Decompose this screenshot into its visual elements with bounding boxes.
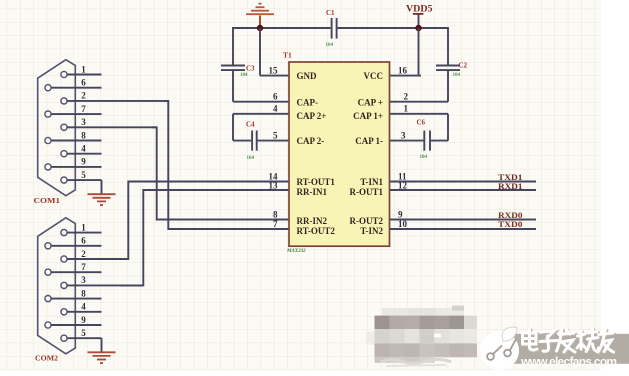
IC pin name CAP +	[358, 97, 383, 107]
svg-text:CAP 2+: CAP 2+	[297, 111, 327, 121]
svg-text:TXD1: TXD1	[498, 173, 523, 182]
svg-text:COM1: COM1	[34, 197, 61, 205]
wire pin3 left segment (IC pin 3)	[390, 140, 424, 142]
net label TXD0	[498, 220, 523, 229]
pin number 3 (COM1)	[81, 117, 86, 127]
wire IC pin 2	[390, 101, 449, 103]
svg-text:RR-IN1: RR-IN1	[297, 187, 328, 197]
svg-text:5: 5	[81, 170, 86, 180]
wire COM1 pin 6	[51, 87, 101, 89]
svg-text:104: 104	[453, 73, 461, 78]
wire COM1 pin 9	[51, 166, 101, 168]
IC pin name T-IN2	[360, 226, 383, 236]
svg-text:RR-IN2: RR-IN2	[297, 216, 328, 226]
wire COM2 pin5 to ground	[101, 338, 103, 352]
wire COM2 pin 2	[67, 258, 128, 260]
IC pin name RT-OUT1	[297, 177, 336, 187]
label MAX232	[286, 249, 306, 254]
wire rail corner down to C3	[232, 27, 234, 65]
svg-text:GND: GND	[297, 71, 318, 81]
svg-text:104: 104	[240, 73, 248, 78]
svg-text:RT-OUT1: RT-OUT1	[297, 177, 336, 187]
capacitor C1	[332, 18, 337, 39]
wire IC pin 13 to COM2 pin 3	[120, 190, 289, 285]
IC pin name CAP 1+	[353, 111, 383, 121]
capacitor C4	[252, 131, 257, 151]
wire pin3 right segment	[431, 140, 448, 142]
svg-text:6: 6	[81, 236, 86, 246]
wire IC pin 15	[260, 75, 289, 77]
svg-text:3: 3	[401, 130, 406, 140]
wire top rail left of C1	[233, 27, 331, 29]
label C3	[246, 65, 255, 73]
wire IC pin 16	[390, 75, 422, 77]
svg-text:TXD0: TXD0	[498, 220, 523, 229]
pin number 3 (COM2)	[81, 275, 86, 285]
svg-text:2: 2	[404, 92, 409, 102]
power symbol VDD5	[406, 4, 433, 29]
wire IC pin 7 to COM1 pin 2	[164, 101, 289, 229]
svg-text:CAP 1-: CAP 1-	[355, 136, 383, 146]
ground (COM2)	[88, 352, 116, 363]
wire COM1 pin 8	[51, 140, 101, 142]
svg-text:12: 12	[398, 180, 408, 190]
svg-text:CAP-: CAP-	[297, 97, 319, 107]
svg-text:3: 3	[81, 275, 86, 285]
capacitor C2	[436, 66, 460, 71]
value 104 (C6)	[420, 155, 428, 160]
net label RXD0	[498, 211, 523, 220]
svg-text:R-OUT2: R-OUT2	[350, 216, 384, 226]
wire COM2 pin 6	[51, 245, 101, 247]
op-amp/IC U1 MAX232 body	[289, 62, 390, 246]
svg-text:104: 104	[326, 43, 334, 48]
svg-text:5: 5	[81, 328, 86, 338]
capacitor C3	[221, 66, 245, 71]
svg-text:www.elecfans.com: www.elecfans.com	[520, 355, 617, 369]
svg-text:5: 5	[273, 130, 278, 140]
wire COM1 pin 7	[51, 113, 101, 115]
svg-text:4: 4	[81, 302, 86, 312]
connector COM1 (DB9 female)	[38, 60, 76, 196]
svg-text:15: 15	[269, 65, 279, 75]
svg-text:COM2: COM2	[35, 354, 59, 362]
pin number 7 (IC left)	[273, 219, 278, 229]
svg-text:9: 9	[81, 157, 86, 167]
label C2	[459, 62, 468, 70]
pin number 5 (COM2)	[81, 328, 86, 338]
svg-text:C3: C3	[246, 65, 255, 73]
svg-text:MAX232: MAX232	[286, 249, 306, 254]
wire COM1 pin 1	[67, 74, 101, 76]
IC pin name CAP 1-	[355, 136, 383, 146]
pin number 4 (IC left)	[273, 104, 278, 114]
pin number 6 (COM2)	[81, 236, 86, 246]
pin number 2 (IC right)	[404, 92, 409, 102]
pin number 8 (IC left)	[273, 209, 278, 219]
pin number 9 (COM1)	[81, 157, 86, 167]
pin number 4 (COM2)	[81, 302, 86, 312]
pin number 1 (COM1)	[81, 64, 86, 74]
pin number 2 (COM2)	[81, 249, 86, 259]
svg-text:1: 1	[81, 64, 86, 74]
svg-text:13: 13	[269, 180, 279, 190]
svg-text:2: 2	[81, 249, 86, 259]
wire COM1 pin 2	[67, 100, 168, 102]
svg-text:R-OUT1: R-OUT1	[350, 187, 384, 197]
wire IC pin 12 (RXD1)	[390, 189, 537, 191]
wire COM2 pin 3	[67, 284, 143, 286]
svg-text:1: 1	[81, 222, 86, 232]
svg-text:9: 9	[81, 315, 86, 325]
pin number 1 (COM2)	[81, 222, 86, 232]
svg-text:6: 6	[81, 78, 86, 88]
label T1	[283, 51, 292, 60]
svg-text:4: 4	[273, 104, 278, 114]
pin number 10 (IC right)	[398, 219, 408, 229]
pin number 6 (IC left)	[273, 92, 278, 102]
wire pin5 right segment (IC pin 5)	[258, 140, 289, 142]
junction at VDD5/rail	[415, 25, 421, 31]
svg-text:104: 104	[247, 156, 255, 161]
net label TXD1	[498, 173, 523, 182]
wire pin4 down to pin5 row	[232, 114, 234, 141]
label COM2	[35, 354, 59, 362]
watermark band	[489, 334, 629, 364]
wire VDD5 down to pin16	[418, 28, 420, 76]
wire top rail right of C1	[338, 27, 448, 29]
svg-text:8: 8	[273, 209, 278, 219]
pin number 15 (IC left)	[269, 65, 279, 75]
svg-text:7: 7	[273, 219, 278, 229]
svg-text:4: 4	[81, 144, 86, 154]
label C1	[326, 9, 335, 17]
net label RXD1	[498, 182, 523, 191]
wire COM2 pin 4	[67, 311, 101, 313]
pin number 14 (IC left)	[269, 171, 279, 181]
svg-text:9: 9	[398, 209, 403, 219]
mosaic censored watermark block	[366, 306, 477, 367]
svg-text:T1: T1	[283, 51, 292, 60]
svg-text:8: 8	[81, 130, 86, 140]
svg-text:VDD5: VDD5	[406, 4, 433, 14]
pin number 11 (IC right)	[398, 171, 407, 181]
IC pin name RT-OUT2	[297, 226, 336, 236]
svg-text:1: 1	[404, 104, 409, 114]
svg-text:VCC: VCC	[364, 71, 384, 81]
value 104 (C4)	[247, 156, 255, 161]
pin number 13 (IC left)	[269, 180, 279, 190]
svg-text:8: 8	[81, 288, 86, 298]
wire rail corner down to C2	[447, 27, 449, 65]
svg-text:C4: C4	[246, 121, 255, 129]
IC pin name CAP 2-	[297, 136, 325, 146]
label C6	[417, 119, 426, 127]
pin number 8 (COM1)	[81, 130, 86, 140]
wire IC pin 1	[390, 113, 449, 115]
IC pin name CAP 2+	[297, 111, 327, 121]
pin number 7 (COM1)	[81, 104, 86, 114]
wire COM2 pin 7	[51, 271, 101, 273]
value 104 (C1)	[326, 43, 334, 48]
wire COM2 pin 8	[51, 298, 101, 300]
IC pin name CAP-	[297, 97, 319, 107]
label C4	[246, 121, 255, 129]
wire IC pin 9 (RXD0)	[390, 219, 537, 221]
label COM1	[34, 197, 61, 205]
pin number 16 (IC right)	[398, 65, 408, 75]
svg-text:6: 6	[273, 92, 278, 102]
pin number 4 (COM1)	[81, 144, 86, 154]
IC pin name R-OUT2	[350, 216, 384, 226]
wire IC pin 6	[233, 101, 289, 103]
svg-text:16: 16	[398, 65, 408, 75]
svg-text:C1: C1	[326, 9, 335, 17]
pin number 8 (COM2)	[81, 288, 86, 298]
wire IC pin 11 (TXD1)	[390, 181, 537, 183]
svg-text:104: 104	[420, 155, 428, 160]
wire COM1 pin 5	[67, 179, 101, 181]
wire COM1 pin 4	[67, 153, 101, 155]
IC pin name GND	[297, 71, 318, 81]
pin number 6 (COM1)	[81, 78, 86, 88]
pin number 9 (IC right)	[398, 209, 403, 219]
pin number 12 (IC right)	[398, 180, 408, 190]
wire IC pin 14 to COM2 pin 2	[106, 182, 289, 260]
svg-text:C6: C6	[417, 119, 426, 127]
wire IC pin 4	[233, 113, 289, 115]
svg-text:CAP 2-: CAP 2-	[297, 136, 325, 146]
svg-text:RXD1: RXD1	[498, 182, 523, 191]
svg-text:3: 3	[81, 117, 86, 127]
watermark text 电子发烧友	[523, 329, 615, 353]
svg-text:RXD0: RXD0	[498, 211, 523, 220]
svg-text:2: 2	[81, 91, 86, 101]
pin number 2 (COM1)	[81, 91, 86, 101]
ground (COM1)	[88, 194, 116, 205]
svg-text:7: 7	[81, 104, 86, 114]
wire IC pin 10 (TXD0)	[390, 228, 537, 230]
IC pin name RR-IN1	[297, 187, 328, 197]
svg-text:7: 7	[81, 262, 86, 272]
pin number 5 (IC left)	[273, 130, 278, 140]
wire COM1 pin 3	[67, 126, 157, 128]
connector COM2 (DB9 female)	[38, 218, 76, 354]
wire junction down to pin15	[259, 28, 261, 76]
IC pin name VCC	[364, 71, 384, 81]
svg-text:RT-OUT2: RT-OUT2	[297, 226, 336, 236]
pin number 7 (COM2)	[81, 262, 86, 272]
wire COM1 pin5 to ground	[101, 180, 103, 194]
wire COM2 pin 5	[67, 337, 101, 339]
value 104 (C2)	[453, 73, 461, 78]
IC pin name RR-IN2	[297, 216, 328, 226]
svg-text:C2: C2	[459, 62, 468, 70]
watermark logo (elecfans)	[480, 327, 519, 370]
capacitor C6	[424, 131, 430, 151]
pin number 3 (IC right)	[401, 130, 406, 140]
pin number 1 (IC right)	[404, 104, 409, 114]
svg-text:T-IN1: T-IN1	[360, 177, 383, 187]
ground (top, above rail)	[246, 4, 274, 28]
wire COM2 pin 9	[51, 324, 101, 326]
wire pin1 down to pin3 row	[447, 114, 449, 141]
wire C3 down to pin6 row	[232, 70, 234, 101]
wire IC pin 8 to COM1 pin 3	[152, 127, 289, 219]
IC pin name R-OUT1	[350, 187, 384, 197]
svg-text:CAP 1+: CAP 1+	[353, 111, 383, 121]
pin number 9 (COM2)	[81, 315, 86, 325]
svg-text:10: 10	[398, 219, 408, 229]
watermark url www.elecfans.com	[520, 355, 617, 369]
value 104 (C3)	[240, 73, 248, 78]
wire COM2 pin 1	[67, 232, 101, 234]
wire pin5 left segment	[233, 140, 251, 142]
wire C2 down to pin2 row	[447, 70, 449, 101]
svg-text:CAP +: CAP +	[358, 97, 383, 107]
pin number 5 (COM1)	[81, 170, 86, 180]
svg-text:T-IN2: T-IN2	[360, 226, 383, 236]
junction at ground/rail	[257, 25, 263, 31]
IC pin name T-IN1	[360, 177, 383, 187]
